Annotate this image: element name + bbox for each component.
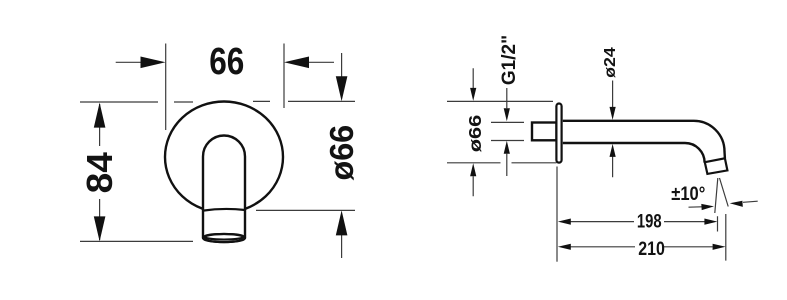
svg-text:198: 198	[637, 211, 662, 232]
svg-text:210: 210	[638, 238, 665, 260]
svg-text:66: 66	[209, 40, 244, 82]
svg-text:84: 84	[80, 151, 120, 193]
svg-text:ø66: ø66	[466, 115, 486, 153]
svg-text:ø66: ø66	[322, 125, 359, 181]
svg-text:ø24: ø24	[601, 46, 619, 77]
svg-text:±10°: ±10°	[671, 183, 705, 204]
svg-text:G1/2": G1/2"	[499, 35, 520, 85]
